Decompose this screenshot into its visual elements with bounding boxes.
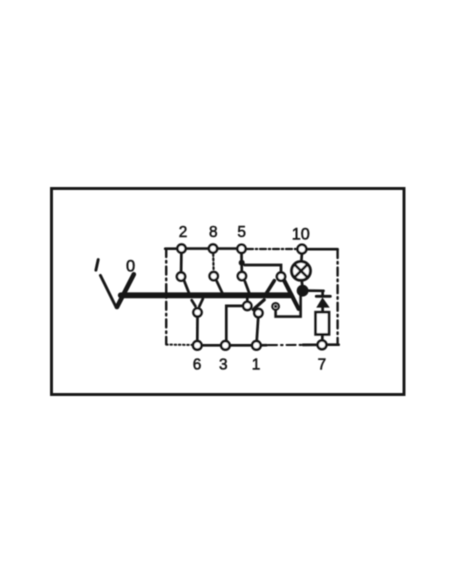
- contact 3a stem to bar: [246, 298, 249, 301]
- stem terminal 10 to lamp: [300, 254, 303, 261]
- svg-text:10: 10: [292, 226, 310, 244]
- wire into terminal 7: [303, 343, 318, 346]
- stem node J5 to contact 5a: [240, 263, 243, 272]
- contact 3a circle below bar: [243, 302, 251, 310]
- lever position label I: [96, 260, 98, 271]
- wire contact 3a to terminal 3: [226, 306, 242, 341]
- wire junction dot D to diode: [306, 289, 324, 292]
- wire terminal 10 to housing top-right corner: [302, 248, 338, 251]
- contact 5a circle: [238, 272, 246, 280]
- svg-text:1: 1: [252, 357, 261, 374]
- contact 2a circle: [177, 272, 185, 280]
- pivot P left thick arm: [266, 281, 274, 294]
- lever left arm: [100, 275, 116, 307]
- switch housing dash-dot boundary, right edge: [336, 250, 338, 344]
- outer figure frame (decorative): [52, 189, 405, 395]
- stem resistor R1 to terminal 7: [321, 334, 324, 340]
- svg-text:8: 8: [209, 224, 218, 241]
- stem terminal 5 to node J5: [240, 252, 243, 263]
- resistor R1 body: [316, 312, 329, 334]
- terminal 5 circle: [237, 245, 245, 253]
- switch housing dash-dot boundary, left edge: [165, 249, 167, 344]
- svg-text:7: 7: [318, 357, 327, 374]
- diode V1 triangle: [316, 297, 329, 307]
- auxiliary contact S (circle with dot): [272, 303, 279, 310]
- stem contact 6a to terminal 6: [196, 317, 199, 341]
- contact 1a thick arm to bar: [253, 300, 264, 310]
- terminal 6 circle: [193, 341, 202, 350]
- contact 5a arm to bar: [245, 281, 249, 292]
- wire terminal 6 to terminal 3 to terminal 1: [197, 344, 257, 347]
- wire segment right of terminal 1: [257, 344, 267, 347]
- wire terminal 2 to terminal 8: [182, 247, 214, 250]
- contact 8a arm to bar: [217, 281, 224, 295]
- svg-text:5: 5: [237, 224, 246, 241]
- wire contact S to junction dot D: [276, 296, 301, 317]
- housing bottom dotted segment left corner to terminal 6: [166, 344, 192, 346]
- wire node J5 to pivot P: [245, 265, 282, 272]
- pivot P circle: [277, 272, 285, 280]
- junction dot D on bar: [297, 285, 309, 297]
- terminal 7 circle: [318, 340, 327, 349]
- switch housing dash-dot top segment from terminal 5 to terminal 10: [247, 248, 297, 250]
- terminal 10 circle: [298, 245, 307, 254]
- svg-text:2: 2: [179, 224, 188, 241]
- contact 2a arm to bar: [184, 281, 189, 293]
- node J5 junction dot under terminal 5: [239, 260, 245, 266]
- switch housing top edge segment from corner to terminal 2: [165, 247, 181, 250]
- contact 8a circle: [210, 272, 218, 280]
- wire terminal 8 to terminal 5: [213, 247, 242, 250]
- contact 6a circle below bar: [193, 308, 201, 316]
- stem diode to resistor R1: [321, 308, 324, 313]
- terminal 8 circle: [209, 244, 217, 252]
- stem lamp to junction dot D: [300, 281, 303, 286]
- contact 6a fork right prong: [199, 299, 203, 307]
- stem contact 1a to terminal 1: [257, 318, 259, 342]
- lamp E1 (circle with X): [292, 262, 311, 281]
- pivot P right thick arm: [284, 281, 298, 309]
- svg-text:6: 6: [193, 357, 202, 374]
- dotted stem terminal 8 to contact 8a: [212, 254, 215, 271]
- diode V1 cathode bar: [316, 295, 330, 298]
- lever right thick arm: [117, 274, 134, 307]
- terminal 1 circle: [252, 341, 261, 350]
- contact 6a fork left prong: [192, 300, 196, 306]
- housing bottom dash-dot segment between terminal 1 and terminal 7: [268, 344, 303, 346]
- moving contact bar (thick): [121, 292, 291, 298]
- stem terminal 2 to contact 2a: [180, 252, 183, 272]
- contact 1a circle below bar: [254, 309, 262, 317]
- terminal 3 circle: [221, 341, 230, 350]
- wire terminal 7 to housing bottom-right corner: [327, 343, 339, 346]
- svg-text:3: 3: [219, 357, 228, 374]
- terminal 2 circle: [177, 244, 185, 252]
